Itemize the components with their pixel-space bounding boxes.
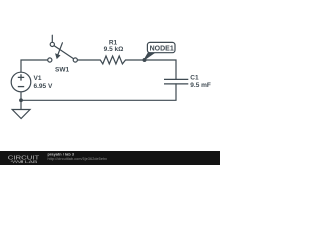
svg-text:SW1: SW1: [55, 67, 69, 74]
wire: R1 to top-right corner and down to C1: [126, 60, 177, 79]
svg-text:C1: C1: [190, 75, 199, 82]
footer bar: [0, 151, 220, 165]
svg-text:V1: V1: [34, 75, 42, 82]
switch SW1: [48, 35, 78, 62]
ground: [12, 100, 30, 118]
svg-text:6.95 V: 6.95 V: [34, 83, 53, 90]
wire: C1 down to bottom rail and left to ground junction: [21, 84, 176, 100]
CircuitLab logo: [8, 156, 40, 164]
svg-text:9.5 mF: 9.5 mF: [190, 82, 211, 89]
svg-text:http://circuitlab.com/5je362de: http://circuitlab.com/5je362de5ehv: [48, 157, 108, 161]
svg-text:prayatn / lab 3: prayatn / lab 3: [48, 152, 75, 156]
node dot NODE1: [143, 58, 147, 62]
node NODE1 balloon: [144, 42, 175, 59]
svg-text:LAB: LAB: [25, 160, 39, 164]
wire: V1 bottom stub: [20, 92, 22, 100]
resistor R1: [100, 56, 125, 64]
voltage source V1: [11, 72, 31, 92]
svg-text:9.5 kΩ: 9.5 kΩ: [104, 46, 124, 53]
wire: top-left corner from V1 up and right to SW1 left terminal: [21, 60, 48, 72]
junction dot at V1 / ground: [19, 98, 23, 102]
capacitor C1: [164, 79, 188, 84]
svg-text:NODE1: NODE1: [150, 45, 174, 52]
wire: SW1 right terminal to R1: [77, 59, 100, 61]
